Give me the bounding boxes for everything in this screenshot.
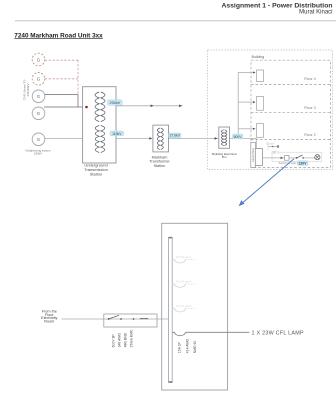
svg-text:G: G [37,137,41,142]
svg-text:Station: Station [154,164,166,168]
svg-text:Murat Kinaci: Murat Kinaci [299,10,332,16]
svg-text:15A 1P: 15A 1P [177,342,181,354]
svg-text:1 X 23W CFL LAMP: 1 X 23W CFL LAMP [252,331,304,337]
svg-text:G: G [37,77,41,82]
svg-text:230kV: 230kV [110,101,121,105]
svg-text:#8G BND: #8G BND [124,332,128,347]
svg-text:27mm EMC: 27mm EMC [130,329,134,347]
svg-text:Rm: Rm [222,155,227,159]
svg-text:120V: 120V [299,161,308,165]
svg-text:7240 Street TS230/28kV: 7240 Street TS230/28kV [22,80,30,101]
svg-text:Ground floor: Ground floor [251,148,255,163]
svg-text:NMD 90: NMD 90 [193,341,197,354]
svg-text:G: G [37,57,41,62]
svg-text:27.6kV: 27.6kV [170,134,181,138]
svg-text:Station: Station [90,172,102,177]
svg-text:Floor 2: Floor 2 [304,133,315,137]
svg-text:Building: Building [252,55,265,59]
svg-text:1P-15A spare: 1P-15A spare [176,305,192,308]
svg-text:600V 3P: 600V 3P [112,334,116,348]
svg-text:3#6 AWG: 3#6 AWG [118,333,122,348]
svg-text:1P-15A spare: 1P-15A spare [176,256,192,259]
svg-text:to panel: to panel [266,143,275,146]
svg-text:Floor 3: Floor 3 [304,106,315,110]
svg-text:230kV: 230kV [34,152,42,156]
svg-text:Assignment 1 - Power Distribut: Assignment 1 - Power Distribution [221,3,332,10]
svg-text:SW: SW [273,152,276,154]
svg-text:G: G [37,111,41,116]
svg-text:Floor 4: Floor 4 [304,77,315,81]
svg-text:7240 Markham Road Unit 3xx: 7240 Markham Road Unit 3xx [14,32,103,39]
svg-text:#14 AWG: #14 AWG [185,338,189,353]
svg-text:G: G [37,94,41,99]
svg-text:1P-15A spare: 1P-15A spare [176,281,192,284]
svg-text:Transformer: Transformer [149,160,170,164]
svg-text:115kV: 115kV [112,132,122,136]
svg-text:Markham: Markham [152,155,168,159]
svg-text:600V: 600V [234,135,243,139]
svg-text:Room: Room [44,320,54,324]
